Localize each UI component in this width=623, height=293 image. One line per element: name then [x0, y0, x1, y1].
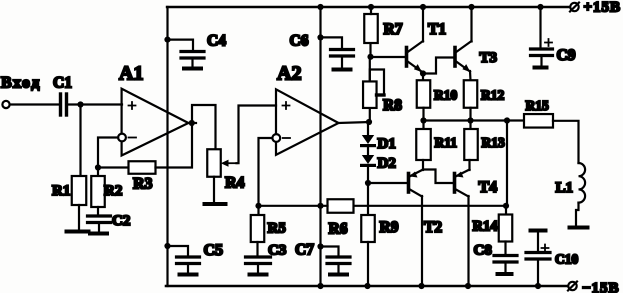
wire R2 to C2	[97, 207, 99, 216]
node A2 supply bottom	[317, 283, 323, 289]
inductor L1	[556, 163, 586, 203]
resistor R7	[364, 14, 402, 43]
node input bias junction	[77, 101, 83, 107]
svg-text:R7: R7	[384, 21, 403, 38]
node T1 base net	[367, 54, 373, 60]
svg-text:R14: R14	[473, 219, 498, 235]
svg-text:R11: R11	[435, 135, 458, 150]
svg-text:D2: D2	[378, 156, 396, 172]
svg-text:C1: C1	[53, 75, 72, 92]
wire A2 output	[339, 122, 370, 123]
node R5 junction	[255, 203, 261, 209]
ground R1	[67, 230, 89, 234]
svg-text:C4: C4	[207, 33, 226, 50]
node feedback A2 bus	[317, 203, 323, 209]
node T1 emitter	[420, 70, 426, 76]
wire -15V bottom rail	[166, 285, 572, 288]
node C7 junction	[317, 243, 323, 249]
wire R7 to rail	[370, 7, 372, 14]
node T2 collector rail	[418, 283, 424, 289]
wire A1 supply vertical	[166, 7, 168, 286]
wire input to C1	[10, 103, 59, 105]
ground L1	[570, 226, 588, 230]
wire T1 collector to rail	[422, 7, 424, 42]
resistor R12	[464, 80, 505, 108]
wire T1 emitter to R10	[422, 72, 424, 81]
wire R1 to ground	[78, 205, 80, 229]
svg-text:C10: C10	[555, 252, 578, 267]
node T2 base net	[365, 180, 371, 186]
terminal +15V	[570, 0, 621, 16]
svg-text:C2: C2	[112, 213, 130, 229]
wire A1 out stub	[188, 122, 196, 124]
capacitor C6	[290, 33, 354, 70]
wire A2 supply vertical	[319, 7, 321, 286]
wire R14 top	[505, 206, 507, 215]
wire A1 out to R4 top	[192, 105, 216, 150]
resistor R10	[417, 80, 458, 108]
svg-text:R6: R6	[329, 221, 348, 238]
wire +15V top rail	[167, 6, 575, 8]
wire T4 collector to rail	[467, 196, 469, 286]
wire T3 emitter to R12	[469, 71, 472, 81]
capacitor C5	[168, 242, 224, 275]
svg-text:C7: C7	[295, 242, 314, 259]
resistor R9	[361, 215, 398, 242]
diode D1	[362, 122, 396, 152]
wire R7 bottom	[369, 43, 371, 57]
transistor T2	[409, 170, 443, 237]
resistor R2	[91, 176, 122, 207]
svg-text:T3: T3	[480, 50, 498, 66]
svg-text:R10: R10	[434, 88, 457, 103]
capacitor C4	[168, 33, 227, 69]
node C4 junction	[164, 37, 170, 43]
svg-text:R13: R13	[482, 135, 505, 150]
wire R11 to T2 emitter	[422, 160, 424, 170]
capacitor C3	[246, 243, 287, 275]
resistor R13	[464, 121, 505, 161]
capacitor C9	[531, 7, 576, 68]
wire T2 base wire	[368, 182, 406, 184]
svg-text:+15В: +15В	[584, 0, 622, 16]
svg-text:−15В: −15В	[582, 281, 620, 293]
svg-text:R15: R15	[526, 98, 549, 113]
capacitor C7	[295, 242, 350, 275]
wire L1 to ground	[576, 203, 579, 226]
resistor R14	[473, 215, 513, 242]
node T4 collector rail	[465, 283, 471, 289]
wire T3 collector to rail	[470, 7, 472, 42]
node A2 supply top	[317, 4, 323, 10]
wire R14 to C8	[504, 242, 506, 256]
capacitor C1	[53, 75, 72, 116]
wire R4 wiper to A2 noninv	[237, 106, 277, 164]
wire A2 inv input	[259, 138, 273, 206]
capacitor C8	[474, 243, 518, 275]
wire T2 collector to rail	[421, 196, 423, 286]
trimmer R8	[363, 70, 402, 115]
node C5 junction	[164, 243, 170, 249]
resistor R5	[251, 215, 286, 242]
resistor R15	[524, 98, 553, 128]
resistor R6	[328, 199, 354, 237]
svg-text:L1: L1	[556, 180, 574, 196]
wire junction to R1	[79, 105, 81, 177]
wire R15 to L1	[553, 121, 579, 163]
wire R4 to ground	[213, 177, 215, 202]
svg-text:R1: R1	[52, 183, 70, 199]
svg-text:R5: R5	[268, 221, 286, 237]
wire D2 to T2 base node	[367, 165, 369, 183]
node A2 output	[366, 119, 372, 125]
node C9 rail	[537, 4, 543, 10]
diode D2	[362, 146, 396, 172]
wire R9 to rail	[367, 242, 369, 286]
ground C2	[90, 232, 107, 236]
node R9 rail	[364, 283, 370, 289]
svg-text:T1: T1	[428, 21, 446, 38]
wire R8 bottom	[369, 108, 371, 122]
terminal input	[2, 101, 9, 108]
node C6 junction	[317, 34, 323, 40]
node T1 collector rail	[420, 4, 426, 10]
svg-text:C6: C6	[290, 33, 309, 50]
transistor T1	[407, 21, 447, 72]
svg-text:C8: C8	[474, 243, 492, 259]
node C10 rail	[535, 283, 541, 289]
node output R10	[420, 117, 426, 123]
wire T1 base wire	[371, 56, 406, 58]
capacitor C10	[526, 231, 578, 287]
wire R10 to output line	[422, 108, 424, 121]
wire C2 to ground	[98, 223, 100, 232]
svg-text:T4: T4	[479, 179, 498, 196]
wire A1 inv input	[98, 138, 118, 167]
terminal -15V	[568, 281, 620, 293]
svg-text:C9: C9	[557, 47, 576, 64]
resistor R3	[98, 161, 156, 192]
wire R8 top to T1 base node	[369, 57, 371, 82]
wire R5 top	[257, 206, 259, 215]
svg-text:R4: R4	[225, 175, 245, 192]
svg-text:R9: R9	[380, 219, 399, 236]
svg-text:R12: R12	[481, 88, 504, 103]
wire output line	[424, 119, 525, 121]
svg-text:Вход: Вход	[1, 75, 41, 92]
ground R4	[205, 202, 226, 206]
svg-text:R8: R8	[383, 97, 402, 114]
potentiometer R4	[207, 149, 244, 191]
wire output to feedback node	[506, 121, 508, 206]
svg-text:C3: C3	[268, 243, 286, 259]
svg-text:C5: C5	[204, 242, 224, 259]
wire R3 to A1 output	[156, 124, 193, 168]
transistor T4	[455, 170, 498, 197]
wire node to R2	[97, 168, 99, 177]
wire T1 emitter to T3 base	[423, 58, 454, 74]
capacitor C2	[88, 213, 131, 229]
node output R15	[504, 117, 510, 123]
wire T2 base net to R9	[367, 183, 369, 215]
node A1 output	[189, 120, 195, 126]
op-amp A2	[272, 63, 338, 155]
node T3 collector rail	[468, 4, 474, 10]
node A1 inv net	[95, 164, 101, 170]
wire R5 to C3	[256, 242, 258, 257]
svg-text:D1: D1	[378, 136, 396, 152]
svg-text:R3: R3	[133, 176, 153, 193]
resistor R11	[416, 121, 457, 161]
wire feedback line right	[353, 205, 506, 207]
svg-text:R2: R2	[104, 183, 122, 199]
transistor T3	[455, 41, 497, 72]
node R7 rail	[368, 4, 374, 10]
svg-text:T2: T2	[424, 219, 442, 236]
wire feedback line left	[259, 205, 328, 207]
resistor R1	[52, 176, 86, 205]
label Vhod	[1, 75, 41, 92]
node feedback R14	[503, 203, 509, 209]
svg-text:A2: A2	[277, 63, 301, 85]
wire R12 to output line	[469, 108, 471, 121]
wire R13 to T4 emitter	[468, 160, 470, 170]
node output R12	[467, 117, 473, 123]
svg-text:A1: A1	[119, 63, 143, 85]
wire C1 to A1 noninv input	[68, 103, 122, 105]
wire T2 emitter to T4 base	[423, 170, 454, 184]
op-amp A1	[118, 63, 188, 156]
